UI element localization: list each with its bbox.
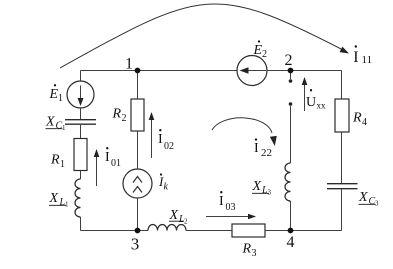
svg-text:2: 2	[184, 218, 188, 226]
resistor R3	[232, 224, 265, 237]
label XL2	[169, 208, 189, 226]
svg-text:1: 1	[125, 56, 133, 73]
label R4	[352, 111, 367, 129]
svg-text:02: 02	[164, 141, 174, 152]
label Uxx	[306, 89, 326, 110]
svg-text:01: 01	[111, 158, 121, 169]
wire R2 to Ik	[137, 131, 139, 169]
current source Ik	[123, 169, 152, 198]
svg-text:X: X	[358, 190, 368, 205]
resistor R1	[74, 139, 87, 171]
label I03	[219, 191, 236, 213]
node 3 junction dot	[135, 228, 141, 234]
wire R3 to right corner	[265, 230, 342, 232]
voltage source E1	[67, 81, 94, 108]
svg-text:I: I	[254, 141, 259, 156]
wire top bus node1-node2	[81, 70, 342, 72]
svg-text:1: 1	[65, 201, 69, 209]
terminal dot upper	[289, 79, 293, 83]
resistor R4	[335, 99, 349, 132]
wire R4 to XC3	[341, 132, 343, 183]
svg-text:3: 3	[131, 235, 140, 254]
node 1 junction dot	[135, 68, 141, 74]
svg-text:1: 1	[60, 159, 65, 170]
current arrow I03	[206, 214, 256, 220]
svg-text:4: 4	[362, 117, 367, 128]
inductor XL1	[75, 179, 81, 217]
node 4 junction dot	[288, 228, 294, 234]
svg-text:R: R	[242, 242, 252, 257]
inductor XL2	[148, 225, 186, 231]
capacitor XC1	[65, 120, 96, 125]
label XL1	[49, 191, 70, 209]
svg-text:2: 2	[262, 49, 267, 60]
wire Ik to node 3	[137, 198, 139, 231]
svg-text:R: R	[352, 111, 362, 126]
label E1	[49, 84, 64, 104]
svg-text:2: 2	[122, 113, 127, 124]
voltage arrow Uxx	[302, 77, 308, 111]
svg-text:3: 3	[268, 189, 272, 197]
svg-text:k: k	[164, 182, 169, 193]
label XL3	[252, 179, 272, 197]
label I01	[105, 147, 121, 169]
svg-text:1: 1	[62, 124, 66, 132]
resistor R2	[131, 99, 144, 131]
svg-text:U: U	[306, 95, 316, 110]
svg-text:I: I	[353, 49, 358, 66]
svg-text:2: 2	[285, 52, 293, 69]
node 2 junction dot	[288, 68, 294, 74]
wire middle branch node1 to R2	[137, 71, 139, 100]
svg-text:03: 03	[226, 202, 236, 213]
svg-text:4: 4	[287, 234, 295, 251]
wire R1 to L1	[80, 171, 82, 180]
svg-text:22: 22	[261, 147, 272, 159]
label I02	[158, 129, 174, 152]
wire bottom bus left (corner to node 3)	[81, 230, 149, 232]
label R2	[112, 107, 127, 125]
svg-text:R: R	[50, 153, 60, 168]
label R1	[50, 153, 65, 171]
svg-text:1: 1	[58, 93, 63, 104]
open-terminal stub below node 2	[290, 71, 292, 80]
wire XL3 to node 4	[290, 201, 292, 231]
terminal dot lower	[289, 102, 293, 106]
svg-text:3: 3	[252, 248, 257, 259]
label E2	[253, 40, 268, 60]
svg-text:R: R	[112, 107, 122, 122]
svg-text:E: E	[49, 87, 59, 102]
label I22	[254, 138, 272, 159]
loop current arrow I11	[60, 4, 349, 68]
svg-text:X: X	[45, 115, 55, 130]
svg-text:I: I	[158, 132, 163, 147]
current arrow I01	[94, 149, 100, 186]
label R3	[242, 242, 257, 260]
label XC3	[358, 190, 379, 208]
wire C1 to R1	[80, 125, 82, 139]
inductor XL3	[285, 163, 291, 201]
svg-text:X: X	[252, 179, 262, 194]
svg-text:I: I	[219, 194, 224, 209]
svg-text:xx: xx	[317, 101, 327, 111]
svg-text:I: I	[105, 150, 110, 165]
label XC1	[45, 115, 66, 133]
svg-text:E: E	[253, 43, 263, 58]
label I11	[353, 45, 372, 66]
wire right branch top	[341, 71, 343, 100]
wire left branch upper	[80, 71, 82, 82]
svg-text:X: X	[49, 191, 59, 206]
wire E1 to C1	[80, 108, 82, 119]
wire terminal to XL3	[290, 106, 292, 163]
label Ik	[158, 173, 169, 192]
wire XC3 to bottom bus	[341, 189, 343, 230]
svg-text:3: 3	[375, 200, 379, 208]
wire XL2 to R3	[186, 230, 232, 232]
svg-text:11: 11	[362, 54, 373, 66]
wire L1 to bottom bus	[80, 217, 82, 231]
capacitor XC3	[327, 184, 358, 189]
loop current arrow I22	[212, 118, 277, 146]
voltage source E2	[237, 56, 267, 86]
current arrow I02	[149, 112, 155, 158]
